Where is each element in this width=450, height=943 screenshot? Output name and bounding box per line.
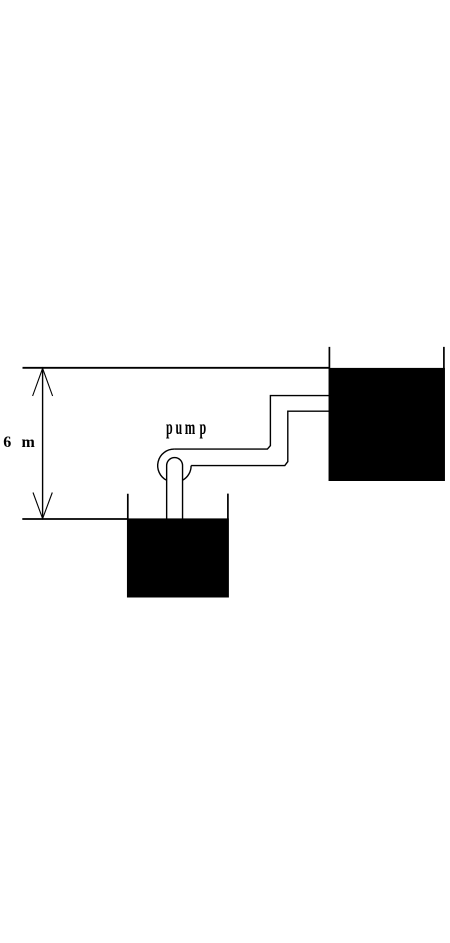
top arrowhead	[33, 368, 53, 396]
upper reference line (datum at upper tank water level)	[23, 367, 330, 369]
upper tank water fill	[329, 368, 445, 481]
upper tank right wall	[443, 347, 445, 481]
svg-text:p: p	[166, 416, 173, 439]
svg-text:m: m	[185, 416, 196, 439]
pump outer casing, right arc	[183, 466, 192, 481]
svg-text:6: 6	[3, 434, 11, 451]
dimension line (vertical, 6 m)	[42, 368, 44, 519]
suction pipe left wall	[166, 466, 168, 520]
lower reference line (datum at lower tank water level)	[22, 518, 128, 520]
svg-text:u: u	[176, 416, 183, 439]
discharge pipe inner wall (bottom-right)	[191, 411, 329, 465]
suction pipe right wall	[182, 466, 184, 520]
label: pump	[166, 416, 206, 439]
lower tank left wall	[127, 494, 129, 598]
upper tank left wall	[328, 347, 330, 481]
svg-text:m: m	[22, 434, 36, 451]
pump outer casing, left arc	[158, 449, 175, 480]
bottom arrowhead	[33, 493, 52, 519]
lower tank right wall	[227, 494, 229, 598]
lower tank water fill	[127, 518, 229, 597]
pump inner dome cap	[167, 458, 183, 466]
discharge pipe outer wall (top-left)	[175, 396, 330, 450]
svg-text:p: p	[200, 416, 207, 439]
